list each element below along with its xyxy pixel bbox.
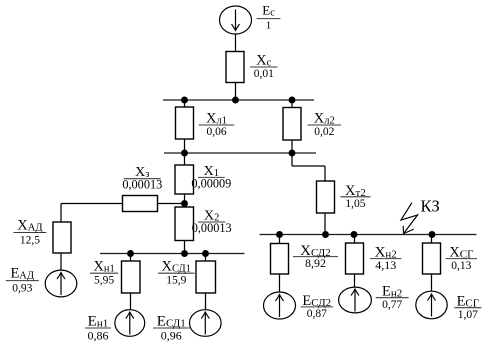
svg-text:5,95: 5,95: [94, 274, 114, 286]
svg-text:0,93: 0,93: [12, 282, 32, 294]
svg-text:0,00009: 0,00009: [191, 176, 231, 190]
svg-text:0,13: 0,13: [451, 260, 471, 272]
svg-text:0,87: 0,87: [307, 308, 327, 320]
svg-text:12,5: 12,5: [20, 234, 40, 246]
svg-text:15,9: 15,9: [166, 274, 186, 286]
svg-text:0,00013: 0,00013: [192, 221, 232, 235]
svg-text:0,06: 0,06: [206, 126, 226, 138]
svg-text:1,05: 1,05: [345, 198, 365, 210]
svg-text:КЗ: КЗ: [421, 197, 440, 216]
svg-text:0,01: 0,01: [254, 68, 274, 80]
svg-text:0,96: 0,96: [161, 328, 182, 342]
svg-text:4,13: 4,13: [375, 258, 396, 272]
svg-text:0,86: 0,86: [87, 328, 108, 342]
svg-text:0,02: 0,02: [314, 126, 334, 138]
svg-text:0,77: 0,77: [382, 299, 402, 311]
svg-text:1: 1: [266, 20, 272, 32]
svg-text:8,92: 8,92: [305, 256, 326, 270]
svg-text:0,00013: 0,00013: [122, 178, 162, 192]
svg-text:1,07: 1,07: [458, 309, 478, 321]
